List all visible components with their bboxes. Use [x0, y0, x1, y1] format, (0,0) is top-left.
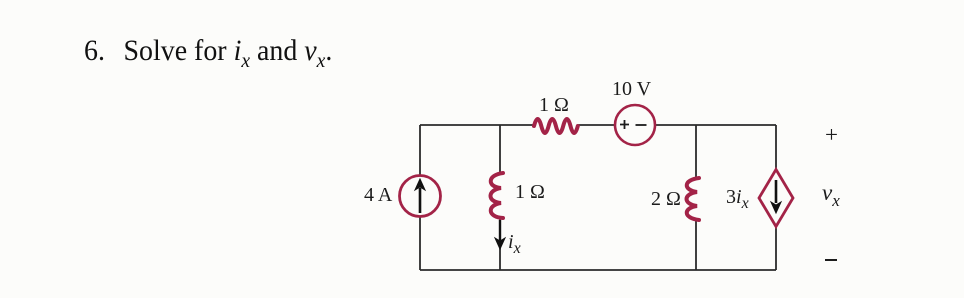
current arrow ix on wire [499, 220, 501, 240]
wire: right vertical below diamond source [775, 225, 777, 270]
wire: right vertical above diamond source [775, 125, 777, 169]
svg-text:1 Ω: 1 Ω [515, 181, 545, 203]
arrow of 4A source [419, 188, 422, 213]
voltage source V1 10V circle [615, 105, 655, 145]
minus sign of vx [825, 259, 837, 261]
wire: bottom horizontal [420, 269, 776, 271]
resistor R2 1-ohm vertical [491, 173, 504, 218]
wire: top-right segment [655, 124, 776, 126]
problem title [84, 34, 332, 73]
svg-text:4 A: 4 A [364, 184, 393, 206]
plus sign inside source [620, 120, 629, 129]
dependent current source 3ix diamond [759, 170, 793, 227]
wire: 1-ohm branch vertical below resistor [499, 217, 501, 270]
wire: 2-ohm branch vertical below resistor [695, 220, 697, 270]
current source I1 4A circle [400, 176, 441, 217]
wire: 2-ohm branch vertical above resistor [695, 125, 697, 179]
resistor R3 2-ohm vertical [687, 178, 700, 220]
svg-text:+: + [825, 122, 838, 147]
svg-text:vx: vx [822, 180, 840, 210]
minus sign inside source [636, 124, 647, 126]
svg-text:ix: ix [508, 231, 521, 257]
wire: left vertical (top part above 4A source) [419, 125, 421, 176]
wire: top between resistor and 10V source [578, 124, 615, 126]
arrow of dependent source [775, 180, 778, 203]
wire: 1-ohm branch vertical above resistor [499, 125, 501, 173]
svg-text:3ix: 3ix [726, 186, 749, 212]
resistor R1 1-ohm horizontal [534, 119, 578, 133]
svg-text:2 Ω: 2 Ω [651, 188, 681, 210]
svg-text:10 V: 10 V [612, 78, 652, 100]
wire: top-left horizontal segment [420, 124, 534, 126]
svg-text:1 Ω: 1 Ω [539, 94, 569, 116]
wire: left vertical (below 4A source) [419, 217, 421, 270]
